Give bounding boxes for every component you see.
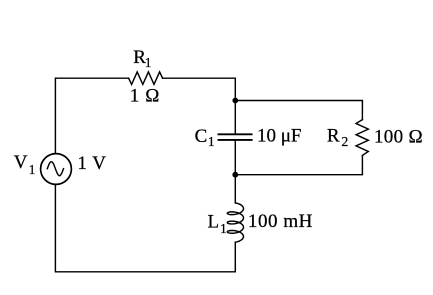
svg-text:1: 1 (29, 162, 36, 177)
svg-text:R: R (327, 126, 340, 147)
svg-text:1: 1 (208, 134, 215, 149)
svg-text:2: 2 (342, 134, 349, 149)
svg-text:100 mH: 100 mH (248, 211, 313, 232)
svg-text:1 Ω: 1 Ω (130, 85, 160, 106)
svg-text:L: L (208, 212, 220, 233)
svg-text:1: 1 (145, 55, 152, 70)
svg-text:C: C (195, 126, 208, 147)
svg-text:10 μF: 10 μF (257, 126, 302, 147)
svg-text:1 V: 1 V (77, 153, 106, 174)
svg-text:1: 1 (220, 221, 227, 236)
svg-text:100 Ω: 100 Ω (374, 126, 423, 147)
svg-text:V: V (14, 152, 28, 173)
